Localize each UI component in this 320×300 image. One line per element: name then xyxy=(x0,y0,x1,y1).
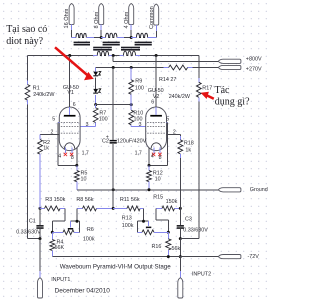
transformer primary winding P1 xyxy=(97,51,108,55)
svg-text:0.33/630V: 0.33/630V xyxy=(183,227,208,233)
node secondary tap 4 Ohm xyxy=(130,36,133,39)
transformer core T1a xyxy=(74,42,90,44)
svg-text:-72V: -72V xyxy=(248,254,260,260)
svg-text:+270V: +270V xyxy=(246,67,262,73)
svg-text:8: 8 xyxy=(71,155,74,161)
node diode chain bottom xyxy=(94,103,97,106)
tube V1 pin 5 stub xyxy=(58,122,59,124)
svg-text:R17: R17 xyxy=(202,86,212,92)
node R9 R10 junction xyxy=(130,103,133,106)
node V2 cathode junction xyxy=(148,164,151,167)
svg-text:4: 4 xyxy=(151,154,154,160)
svg-text:C1: C1 xyxy=(29,219,36,225)
wire ground line xyxy=(77,189,219,191)
wire R15 left jog xyxy=(155,208,157,220)
wire INPUT2 stem xyxy=(179,257,181,271)
svg-text:R15: R15 xyxy=(153,194,163,200)
wire +270V corner to diode xyxy=(95,68,97,72)
resistor R16 xyxy=(167,232,169,239)
wire Common to winding xyxy=(155,25,157,31)
diode D1 xyxy=(93,72,98,76)
svg-text:+800V: +800V xyxy=(246,57,262,63)
wire R3 to R6 jog xyxy=(64,208,66,221)
connector INPUT2 xyxy=(178,278,183,298)
svg-text:5: 5 xyxy=(52,117,55,123)
wire V1 cathode lead xyxy=(76,148,78,166)
tube V1 GU-50 xyxy=(59,107,80,151)
annotation arrow 1 xyxy=(55,47,87,75)
wire R7 to V1 pin 3 xyxy=(80,126,96,128)
svg-text:100k: 100k xyxy=(122,223,134,229)
connector -72V xyxy=(218,255,241,259)
node R6 tap xyxy=(76,220,79,223)
svg-text:100k: 100k xyxy=(83,236,95,242)
wire 4 Ohm to tap xyxy=(130,25,132,30)
svg-text:Wavebourn Pyramid-VII-M Output: Wavebourn Pyramid-VII-M Output Stage xyxy=(60,264,171,271)
node +270V tap join xyxy=(112,66,115,69)
wire R11 to R13 tap xyxy=(143,208,145,221)
wire 16 Ohm to winding xyxy=(71,25,73,30)
svg-text:INPUT2: INPUT2 xyxy=(192,271,211,277)
tube V2 pin 5 stub xyxy=(167,122,168,124)
svg-text:4: 4 xyxy=(58,154,61,160)
wire center tap to +800V xyxy=(112,56,114,62)
wire V2 cathode lead xyxy=(148,148,150,166)
svg-text:R3 150k: R3 150k xyxy=(45,197,65,203)
wire R10 to V2 pin 3 xyxy=(131,126,146,128)
svg-text:C3: C3 xyxy=(185,216,192,222)
wire V2 pin5 rail to cathode xyxy=(167,123,169,166)
svg-text:2: 2 xyxy=(173,129,176,135)
svg-text:6: 6 xyxy=(73,102,76,108)
node V1 plate xyxy=(68,54,71,57)
resistor R12 xyxy=(148,165,150,170)
transformer secondary winding S3 xyxy=(131,37,136,39)
wire INPUT1 stem xyxy=(39,239,41,271)
resistor R4 xyxy=(51,232,53,239)
svg-text:R1: R1 xyxy=(33,86,40,92)
wire D1 to D2 xyxy=(95,78,97,89)
connector Ground xyxy=(218,188,241,192)
transformer core T1d xyxy=(93,47,112,49)
svg-text:Tại sao có: Tại sao có xyxy=(6,24,47,35)
node V1 cathode junction xyxy=(75,164,78,167)
transformer secondary winding S2 xyxy=(101,37,105,39)
node INPUT1 feedback junction xyxy=(39,237,42,240)
resistor R10 xyxy=(130,105,132,111)
wire +270V to C2 xyxy=(112,68,114,140)
svg-text:3: 3 xyxy=(139,122,142,128)
svg-text:240k/2W: 240k/2W xyxy=(33,92,55,98)
tube V2 GU-50 xyxy=(146,107,167,151)
svg-text:6: 6 xyxy=(151,99,154,105)
svg-text:100: 100 xyxy=(99,117,108,123)
svg-text:R10: R10 xyxy=(133,111,143,117)
svg-text:December 04/2010: December 04/2010 xyxy=(55,287,111,294)
resistor R3 xyxy=(40,207,45,209)
annotation arrow 2 xyxy=(207,95,214,98)
svg-text:R18: R18 xyxy=(184,141,194,147)
tube V2 pin 2 wire xyxy=(167,134,181,136)
capacitor C2 xyxy=(110,140,117,142)
svg-text:Tác: Tác xyxy=(215,85,231,96)
wire +270V rail xyxy=(96,67,164,69)
svg-text:10: 10 xyxy=(81,176,87,182)
tube V1 heater pins crossed xyxy=(65,148,67,153)
capacitor C3 xyxy=(179,208,181,225)
transformer core T1c xyxy=(135,42,152,44)
connector +270V xyxy=(218,65,241,69)
svg-text:4 Ohm: 4 Ohm xyxy=(124,11,130,28)
svg-text:16 Ohm: 16 Ohm xyxy=(64,8,70,28)
svg-text:150k: 150k xyxy=(166,199,178,205)
transformer primary winding P2 xyxy=(124,51,136,55)
svg-text:R16: R16 xyxy=(152,244,162,250)
potentiometer R13 xyxy=(138,220,144,222)
svg-text:R9: R9 xyxy=(135,79,142,85)
svg-text:R11 56k: R11 56k xyxy=(120,197,140,203)
tube V2 heater pins crossed xyxy=(153,148,155,153)
wire plate rail to R17 xyxy=(198,56,200,79)
svg-text:0.33/630V: 0.33/630V xyxy=(16,230,41,236)
node R13 tap xyxy=(142,220,145,223)
connector J2 8 Ohm xyxy=(99,4,104,25)
node R16 bias junction xyxy=(167,255,170,258)
diode D2 mark xyxy=(99,89,101,92)
capacitor C1 xyxy=(39,208,41,225)
svg-text:8: 8 xyxy=(159,155,162,161)
node V2 plate xyxy=(155,54,158,57)
wire R17 down xyxy=(198,97,200,101)
connector J3 4 Ohm xyxy=(129,4,134,25)
connector +800V xyxy=(218,59,241,63)
svg-text:R8 56k: R8 56k xyxy=(76,197,93,203)
svg-text:56K: 56K xyxy=(55,245,65,251)
wire C3 node to bias line xyxy=(179,239,181,257)
resistor R2 xyxy=(39,135,41,140)
wire C2 to ground line xyxy=(112,144,114,190)
node primary center tap xyxy=(112,54,115,57)
resistor R15 xyxy=(156,207,162,209)
resistor R18 xyxy=(179,135,181,137)
wire left rail bottom xyxy=(27,100,29,104)
wire C1 to feedback node xyxy=(39,229,41,238)
svg-text:120uF/420V: 120uF/420V xyxy=(117,139,147,145)
wire V1 plate lead xyxy=(69,56,71,108)
node R6 left R4 junction xyxy=(51,231,54,234)
node R12 ground join xyxy=(148,188,151,191)
resistor R11 xyxy=(113,207,127,209)
svg-text:1,7: 1,7 xyxy=(82,150,89,156)
svg-text:2: 2 xyxy=(51,130,54,136)
node C2 ground join xyxy=(112,188,115,191)
svg-text:5: 5 xyxy=(166,117,169,123)
diode D2 xyxy=(93,89,98,93)
svg-text:diot này?: diot này? xyxy=(6,36,43,47)
svg-text:R7: R7 xyxy=(99,111,106,117)
svg-text:R13: R13 xyxy=(122,216,132,222)
wire junction to R9/R10 join xyxy=(96,104,132,106)
wire V2 plate lead xyxy=(155,56,157,108)
svg-text:100: 100 xyxy=(135,85,144,91)
svg-text:R14 27: R14 27 xyxy=(159,77,176,83)
node INPUT2 bias junction xyxy=(179,255,182,258)
node R9 top join xyxy=(130,66,133,69)
svg-text:8 Ohm: 8 Ohm xyxy=(94,11,100,28)
svg-text:+: + xyxy=(106,135,109,141)
node R3 C1 junction xyxy=(39,207,42,210)
node INPUT2 feedback junction xyxy=(179,237,182,240)
wire plate rail xyxy=(28,55,94,57)
wire V1 pin5 rail to cathode xyxy=(57,123,59,166)
transformer core T1b xyxy=(103,42,120,44)
svg-text:10: 10 xyxy=(155,177,161,183)
resistor R9 xyxy=(130,68,132,80)
resistor R5 xyxy=(76,165,78,170)
resistor R8 xyxy=(77,207,83,209)
wire C3 to feedback node xyxy=(179,229,181,238)
svg-text:V1: V1 xyxy=(67,90,74,96)
diode D1 mark xyxy=(99,72,101,75)
wire C2 ground to grid net xyxy=(112,190,114,209)
svg-text:dụng gì?: dụng gì? xyxy=(215,97,250,108)
svg-text:1k: 1k xyxy=(185,148,191,154)
svg-text:Common: Common xyxy=(149,6,155,29)
connector J4 Common xyxy=(154,4,159,25)
node center grid net xyxy=(112,207,115,210)
svg-text:240k/2W: 240k/2W xyxy=(169,94,191,100)
svg-text:1k: 1k xyxy=(43,145,49,151)
wire D2 to junction xyxy=(95,95,97,105)
resistor R17 xyxy=(196,82,201,97)
transformer secondary winding S1 xyxy=(76,33,86,37)
svg-text:1,7: 1,7 xyxy=(135,151,142,157)
wire R8 left to R6 tap xyxy=(76,208,78,221)
tube V1 pin 2 wire xyxy=(40,134,59,136)
node R15 R18 junction xyxy=(179,207,182,210)
svg-text:R6: R6 xyxy=(87,227,94,233)
node secondary tap 8 Ohm xyxy=(100,36,103,39)
connector J1 16 Ohm xyxy=(69,4,74,25)
svg-text:INPUT1: INPUT1 xyxy=(51,277,70,283)
wire -72V bias line xyxy=(52,256,218,258)
connector INPUT1 xyxy=(38,278,43,298)
potentiometer R6 xyxy=(52,231,63,233)
svg-text:56k: 56k xyxy=(172,246,181,252)
transformer core T1e xyxy=(121,47,140,49)
wire 8 Ohm to tap xyxy=(100,25,102,30)
wire left rail top xyxy=(27,56,29,81)
svg-text:Ground: Ground xyxy=(250,187,268,193)
resistor R1 xyxy=(25,85,30,101)
node R13 right R16 junction xyxy=(167,231,170,234)
resistor R14 xyxy=(169,65,188,70)
resistor R7 xyxy=(95,105,97,108)
svg-text:3: 3 xyxy=(86,122,89,128)
